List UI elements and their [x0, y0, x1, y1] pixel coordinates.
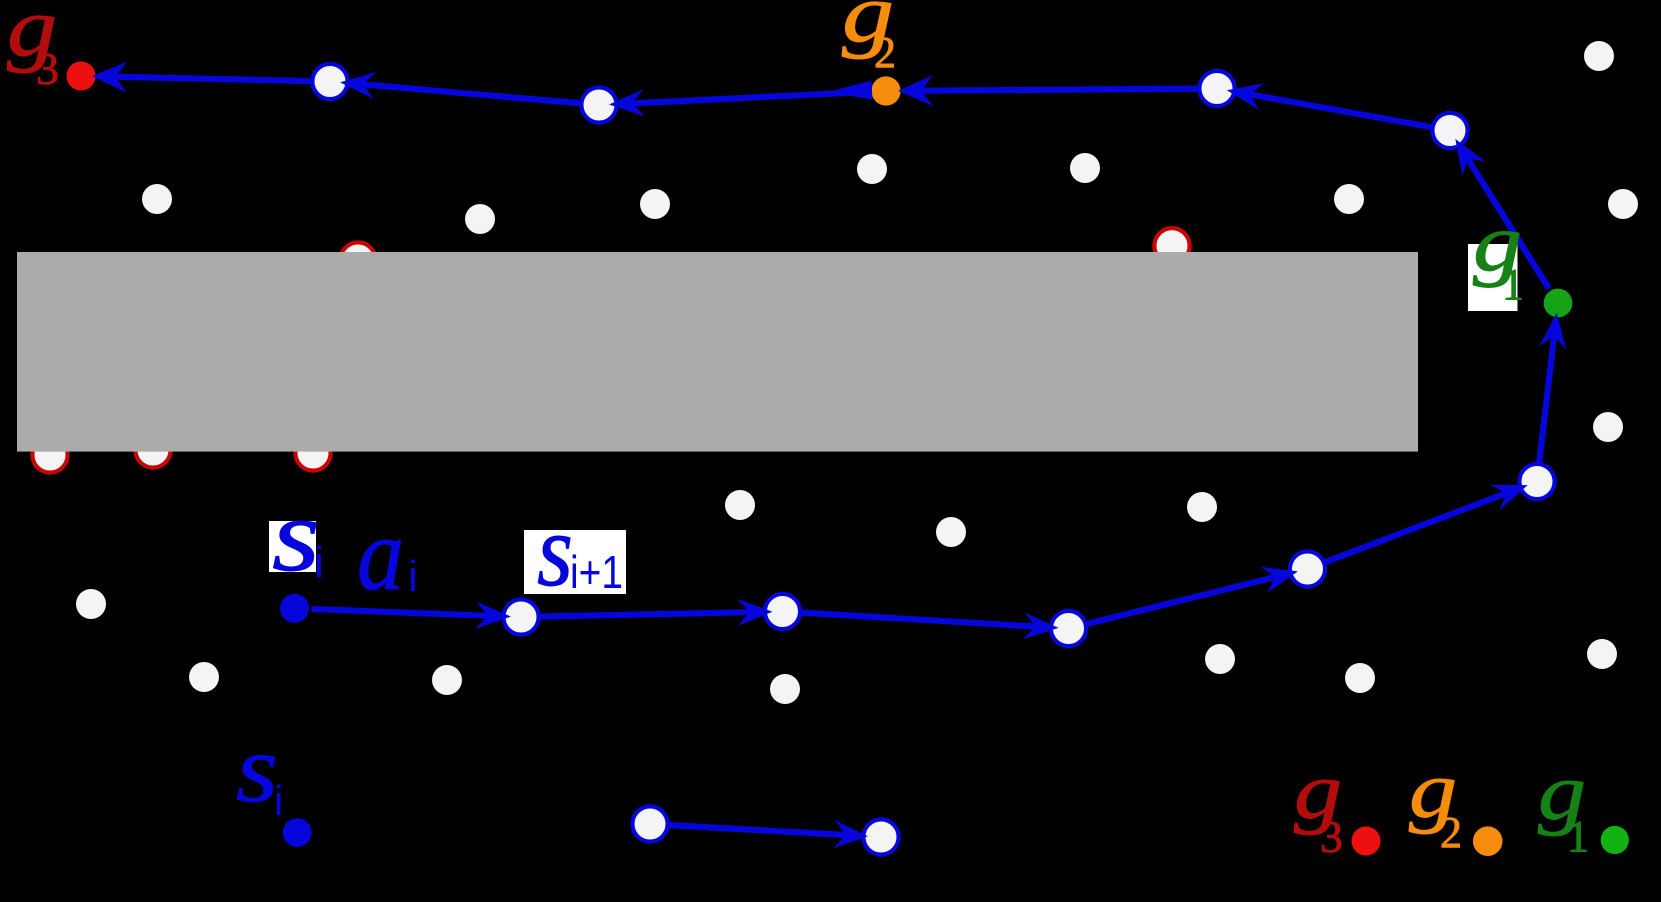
extra arrowhead on segment g2->B (just left of g2) [827, 81, 872, 100]
arrow node F to node E [1323, 485, 1527, 563]
arrow node C to goal g2 [898, 75, 1200, 106]
svg-text:s: s [537, 493, 573, 608]
arrow node G to node F [1085, 567, 1298, 625]
svg-text:1: 1 [1567, 812, 1589, 861]
svg-text:3: 3 [36, 43, 59, 94]
free-space sample dot #13 [725, 490, 755, 520]
label g2 (top goal) [842, 0, 896, 77]
arrow goal g2 to node B [609, 89, 869, 116]
state dot s_i (legend, bottom) [283, 818, 312, 847]
label a_i (action) [357, 497, 418, 612]
trajectory waypoint node B (blue ring) [581, 87, 616, 122]
free-space sample dot #16 [1187, 492, 1217, 522]
free-space sample dot #8 [1608, 189, 1638, 219]
goal dot g2 (orange) [871, 76, 900, 105]
free-space sample dot #12 [432, 665, 462, 695]
arrow node B to node A [340, 72, 582, 104]
obstacle (gray rectangle) [17, 252, 1418, 452]
trajectory waypoint node J (blue ring) [632, 806, 667, 841]
svg-text:s: s [272, 478, 320, 593]
free-space sample dot #6 [1334, 184, 1364, 214]
legend dot g1 (green) [1601, 826, 1629, 854]
svg-text:i: i [314, 538, 324, 587]
label s_i (legend, bottom-left) [236, 715, 283, 824]
label g3 (top-left goal) [7, 0, 59, 94]
free-space sample dot #2 [465, 204, 495, 234]
legend label g2 [1409, 747, 1462, 857]
svg-text:i: i [274, 777, 283, 824]
arrow goal g1 to node D [1455, 139, 1549, 289]
svg-text:a: a [357, 497, 404, 612]
svg-text:3: 3 [1320, 811, 1343, 862]
legend dot g3 (red) [1352, 827, 1381, 856]
free-space sample dot #4 [857, 154, 887, 184]
free-space sample dot #14 [770, 674, 800, 704]
arrow node H to node I [538, 599, 773, 626]
arrow node J to node K (detached edge) [667, 820, 868, 848]
trajectory waypoint node H (blue ring) [503, 599, 538, 634]
obstacle-edge node (red ring) #1 [340, 242, 375, 277]
free-space sample dot #15 [936, 517, 966, 547]
free-space sample dot #7 [1584, 41, 1614, 71]
obstacle-edge node (red ring) #3 [32, 437, 67, 472]
trajectory waypoint node K (blue ring) [863, 819, 898, 854]
free-space sample dot #19 [1587, 639, 1617, 669]
goal dot g1 (green) [1544, 289, 1573, 318]
trajectory waypoint node G (blue ring) [1051, 611, 1086, 646]
label s_i+1 (next state, with white box) [524, 493, 626, 608]
svg-text:i: i [408, 552, 418, 601]
trajectory waypoint node A (blue ring) [312, 64, 347, 99]
arrow node E up to goal g1 [1539, 313, 1566, 465]
trajectory waypoint node E (blue ring) [1519, 464, 1554, 499]
legend label g1 [1538, 749, 1589, 861]
trajectory waypoint node C (blue ring) [1199, 71, 1234, 106]
state dot s_i (on trajectory) [280, 594, 309, 623]
goal dot g3 (red) [67, 62, 96, 91]
free-space sample dot #3 [640, 189, 670, 219]
label s_i (state, with white box) [269, 478, 324, 593]
arrow s_i to node H (action a_i) [312, 602, 512, 629]
free-space sample dot #5 [1070, 153, 1100, 183]
obstacle-edge node (red ring) #5 [295, 435, 330, 470]
trajectory waypoint node F (blue ring) [1290, 551, 1325, 586]
free-space sample dot #11 [189, 662, 219, 692]
svg-text:2: 2 [1440, 808, 1462, 857]
svg-text:1: 1 [1502, 260, 1524, 309]
free-space sample dot #10 [76, 589, 106, 619]
free-space sample dot #18 [1345, 663, 1375, 693]
arrow node I to node G [800, 612, 1059, 639]
label g1 (with white background box) [1468, 197, 1524, 311]
trajectory waypoint node D (blue ring) [1432, 113, 1467, 148]
legend dot g2 (orange) [1473, 826, 1503, 856]
obstacle-edge node (red ring) #2 [1154, 228, 1189, 263]
trajectory waypoint node I (blue ring) [765, 594, 800, 629]
arrow node D to node C [1227, 83, 1434, 127]
svg-text:s: s [236, 715, 278, 822]
svg-text:2: 2 [874, 28, 896, 77]
free-space sample dot #9 [1593, 412, 1623, 442]
arrow node A to goal g3 [92, 62, 313, 93]
free-space sample dot #1 [142, 184, 172, 214]
svg-text:i+1: i+1 [570, 546, 623, 598]
legend label g3 [1294, 748, 1343, 862]
obstacle-edge node (red ring) #4 [135, 432, 170, 467]
free-space sample dot #17 [1205, 644, 1235, 674]
